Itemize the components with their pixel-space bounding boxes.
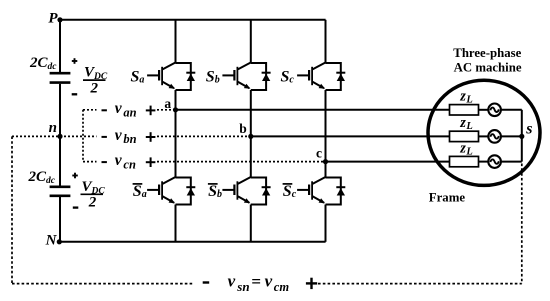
label plus van [146, 106, 156, 116]
node n junction dot [57, 134, 62, 139]
dashed segment row van to node a [157, 109, 174, 111]
dashed segment row vcn left [83, 161, 97, 163]
wire star point vertical [521, 110, 523, 162]
label Sa-bar [133, 183, 147, 200]
polarity minus lower capacitor [73, 206, 79, 208]
svg-text:2Cdc: 2Cdc [28, 169, 56, 186]
transistor Sc-bar bottom IGBT with diode [297, 177, 345, 205]
svg-text:v: v [115, 100, 123, 117]
svg-text:L: L [465, 95, 472, 106]
label Three-phase AC machine [453, 46, 522, 74]
impedance zL box phase c [450, 156, 479, 166]
label plus vsn [306, 278, 317, 289]
transistor Sb-bar bottom IGBT with diode [222, 177, 270, 205]
wire zL box c to source c [479, 161, 489, 163]
svg-text:v: v [115, 152, 123, 169]
svg-text:L: L [465, 147, 472, 158]
polarity plus lower capacitor [72, 173, 78, 179]
label plus vcn [146, 157, 156, 167]
label minus vbn [102, 136, 107, 138]
wire source a to star point [501, 109, 522, 111]
svg-text:Sb: Sb [206, 69, 220, 86]
svg-text:cm: cm [274, 280, 290, 294]
wire zL box b to source b [479, 135, 489, 137]
transistor Sa-bar bottom IGBT with diode [147, 177, 195, 205]
label vsn = vcm [228, 272, 290, 294]
svg-text:cn: cn [123, 157, 136, 171]
svg-text:2: 2 [88, 194, 97, 210]
svg-text:=: = [251, 272, 261, 291]
svg-text:AC machine: AC machine [454, 60, 522, 74]
label VDC/2 upper [83, 65, 108, 97]
node P junction dot [57, 17, 62, 22]
wire source b to star point [501, 135, 522, 137]
svg-text:Three-phase: Three-phase [453, 46, 521, 60]
capacitor C2 lower 2Cdc plates [50, 187, 71, 196]
svg-text:a: a [164, 96, 171, 111]
wire left DC rail lower segment [59, 197, 61, 242]
label plus vbn [146, 132, 156, 142]
impedance zL box phase b [450, 131, 479, 141]
svg-text:s: s [525, 121, 532, 138]
wire leg b vertical segments [250, 20, 252, 242]
svg-text:Frame: Frame [429, 191, 466, 205]
polarity plus upper capacitor [72, 58, 78, 64]
wire leg a vertical segments [175, 20, 177, 242]
wire phase c output [326, 161, 450, 163]
label VDC/2 lower [81, 179, 106, 211]
dashed segment row vcn to node c [157, 161, 324, 163]
svg-text:z: z [459, 115, 466, 131]
svg-text:P: P [48, 11, 58, 27]
wire phase a output [176, 109, 450, 111]
node N junction dot [57, 239, 62, 244]
dashed vertical connector x=83 [82, 110, 84, 162]
wire left DC rail upper segment [59, 20, 61, 72]
wire source c to star point [501, 161, 522, 163]
wire bottom DC bus [60, 241, 326, 243]
dashed bottom bus right part [318, 283, 522, 285]
wire top DC bus [60, 19, 326, 21]
svg-text:Sa: Sa [133, 183, 147, 200]
svg-text:L: L [465, 121, 472, 132]
dashed bottom bus left part [12, 283, 193, 285]
transistor Sb top IGBT with diode [222, 62, 270, 90]
svg-text:Sb: Sb [208, 183, 222, 200]
svg-text:sn: sn [236, 279, 249, 294]
node s junction dot [519, 134, 524, 139]
machine frame circle [428, 80, 540, 185]
svg-text:2: 2 [90, 80, 99, 96]
svg-text:v: v [265, 272, 273, 291]
source phase b [488, 130, 501, 143]
node a junction dot [173, 107, 178, 112]
dashed left vertical to bottom [11, 136, 13, 283]
svg-text:an: an [123, 106, 136, 120]
transistor Sa top IGBT with diode [147, 62, 195, 90]
source phase a [488, 104, 501, 117]
svg-text:v: v [115, 127, 123, 144]
polarity minus upper capacitor [72, 93, 78, 95]
source phase c [488, 155, 501, 168]
dashed segment row van left [83, 109, 97, 111]
label Sb-bar [208, 183, 222, 200]
capacitor C1 upper 2Cdc plates [50, 73, 71, 82]
transistor Sc top IGBT with diode [297, 62, 345, 90]
node b junction dot [248, 134, 253, 139]
svg-text:2Cdc: 2Cdc [29, 55, 57, 72]
wire left DC rail middle segment through node n [59, 84, 61, 186]
label minus van [102, 109, 107, 111]
label minus vcn [102, 161, 107, 163]
svg-text:bn: bn [123, 132, 136, 146]
wire zL box a to source a [479, 109, 489, 111]
impedance zL box phase a [450, 105, 479, 115]
svg-text:c: c [316, 146, 322, 161]
label Sc-bar [283, 183, 297, 200]
svg-text:Sc: Sc [283, 183, 297, 200]
node c junction dot [323, 159, 328, 164]
wire leg c vertical segments [325, 20, 327, 242]
svg-text:n: n [49, 120, 57, 136]
svg-text:Sa: Sa [131, 69, 145, 86]
svg-text:z: z [459, 89, 466, 105]
svg-text:b: b [239, 121, 247, 136]
dashed line n to left edge and to dashed bus [12, 135, 97, 137]
svg-text:Sc: Sc [281, 69, 295, 86]
label minus vsn [203, 281, 210, 283]
dashed segment row vbn to node b [157, 135, 250, 137]
wire phase b output [251, 135, 450, 137]
dashed right vertical from s [521, 164, 523, 284]
svg-text:z: z [459, 141, 466, 157]
svg-text:v: v [228, 272, 236, 291]
svg-text:N: N [45, 233, 58, 249]
